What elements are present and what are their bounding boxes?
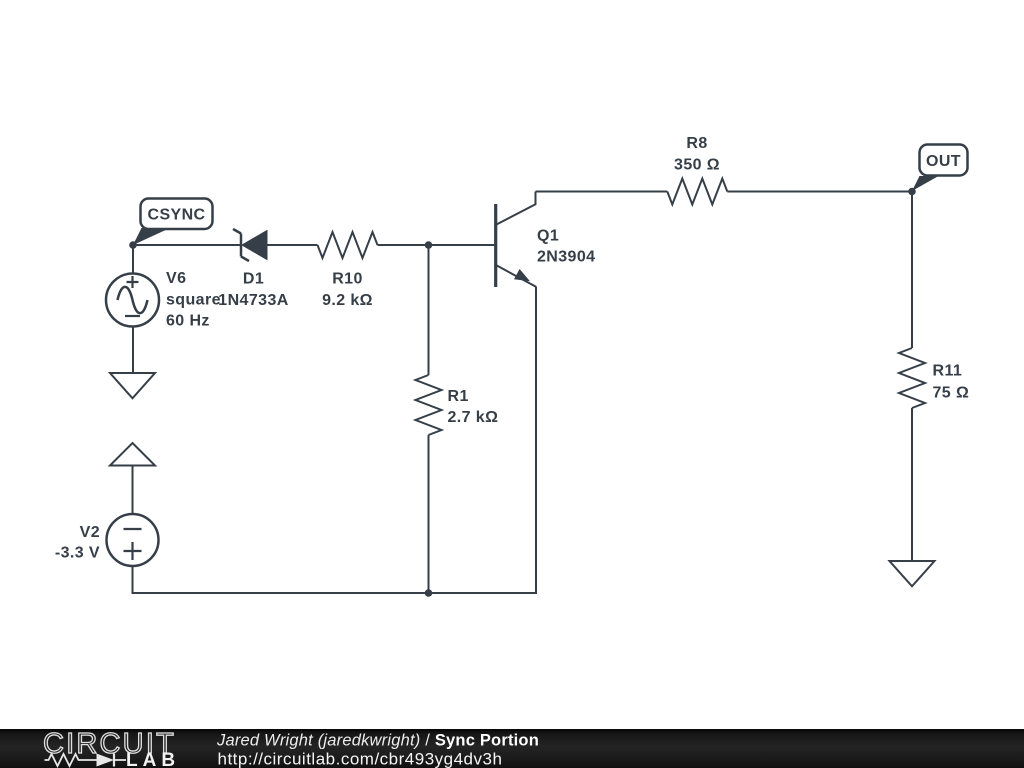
net flag OUT xyxy=(912,145,968,192)
voltage source V2 xyxy=(107,514,159,566)
wire R10 to Q1 base xyxy=(378,244,495,246)
svg-text:-3.3 V: -3.3 V xyxy=(55,545,100,562)
resistor R10 xyxy=(318,232,378,258)
wire Q1 emitter down to bottom rail xyxy=(429,287,537,594)
wire D1 to R10 xyxy=(267,244,318,246)
svg-text:square: square xyxy=(166,292,221,309)
svg-text:R11: R11 xyxy=(933,363,963,380)
svg-text:R10: R10 xyxy=(332,271,363,288)
wire CSYNC node down to V6 xyxy=(132,245,134,274)
CircuitLab logo LAB xyxy=(126,750,180,768)
svg-text:75 Ω: 75 Ω xyxy=(933,385,970,402)
wire R8 to OUT node xyxy=(727,191,912,193)
wire V2 up-symbol to V2 xyxy=(132,466,134,515)
transistor Q1 xyxy=(495,192,537,288)
svg-text:R8: R8 xyxy=(686,135,707,152)
wire bottom rail V2 to junction xyxy=(133,566,429,593)
node CSYNC junction dot xyxy=(129,241,137,249)
footer title line xyxy=(216,732,539,750)
label R10 9.2 kOhm xyxy=(322,271,373,310)
label V2 -3.3 V xyxy=(55,524,100,562)
ground below V6 xyxy=(110,373,155,398)
svg-text:350 Ω: 350 Ω xyxy=(674,157,720,174)
voltage source V6 xyxy=(106,274,159,327)
resistor R11 xyxy=(899,348,925,408)
CircuitLab logo CIRCUIT xyxy=(43,728,176,760)
label R8 350 Ohm xyxy=(674,135,720,174)
wire V6 to ground xyxy=(132,327,134,374)
resistor R1 xyxy=(416,375,442,435)
svg-text:2.7 kΩ: 2.7 kΩ xyxy=(448,409,499,426)
svg-text:9.2 kΩ: 9.2 kΩ xyxy=(322,292,373,309)
svg-text:V6: V6 xyxy=(166,270,186,287)
svg-text:Jared Wright (jaredkwright) /: Jared Wright (jaredkwright) / Sync Porti… xyxy=(216,732,539,750)
wire node CSYNC to D1 xyxy=(133,244,241,246)
label Q1 2N3904 xyxy=(537,228,595,266)
svg-text:D1: D1 xyxy=(243,271,264,288)
ground below R11 xyxy=(890,561,935,586)
CircuitLab logo resistor-diode symbol xyxy=(45,754,127,767)
wire Q1 collector to R8 xyxy=(536,191,668,193)
svg-text:http://circuitlab.com/cbr493yg: http://circuitlab.com/cbr493yg4dv3h xyxy=(218,750,503,768)
svg-text:R1: R1 xyxy=(448,388,469,405)
wire R1 to bottom rail junction xyxy=(428,435,430,593)
resistor R8 xyxy=(667,179,727,205)
svg-text:Q1: Q1 xyxy=(537,228,559,245)
label R11 75 Ohm xyxy=(933,363,970,402)
label D1 1N4733A xyxy=(218,271,288,310)
wire base node down to R1 xyxy=(428,245,430,375)
node OUT junction dot xyxy=(908,188,916,196)
node bottom rail junction dot xyxy=(425,589,433,597)
node Q1 base junction dot xyxy=(425,241,433,249)
zener diode D1 xyxy=(233,229,267,261)
wire OUT node to R11 xyxy=(911,192,913,349)
label V6 square 60 Hz xyxy=(166,270,221,330)
wire R11 to ground xyxy=(911,408,913,561)
svg-text:60 Hz: 60 Hz xyxy=(166,313,210,330)
svg-text:V2: V2 xyxy=(80,524,100,541)
footer url line xyxy=(218,750,503,768)
ground symbol above V2 (flipped) xyxy=(110,443,155,466)
svg-text:LAB: LAB xyxy=(126,750,180,768)
net flag CSYNC xyxy=(133,199,213,246)
svg-text:CSYNC: CSYNC xyxy=(147,207,205,224)
label R1 2.7 kOhm xyxy=(448,388,499,426)
footer bar xyxy=(0,729,1024,768)
svg-text:OUT: OUT xyxy=(926,153,961,170)
svg-text:2N3904: 2N3904 xyxy=(537,249,595,266)
svg-text:1N4733A: 1N4733A xyxy=(218,292,288,309)
